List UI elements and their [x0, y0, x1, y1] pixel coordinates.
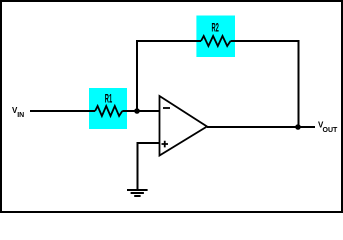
- svg-text:IN: IN: [17, 112, 24, 119]
- svg-text:R2: R2: [212, 23, 219, 35]
- svg-text:R1: R1: [105, 93, 113, 105]
- svg-text:OUT: OUT: [323, 127, 339, 134]
